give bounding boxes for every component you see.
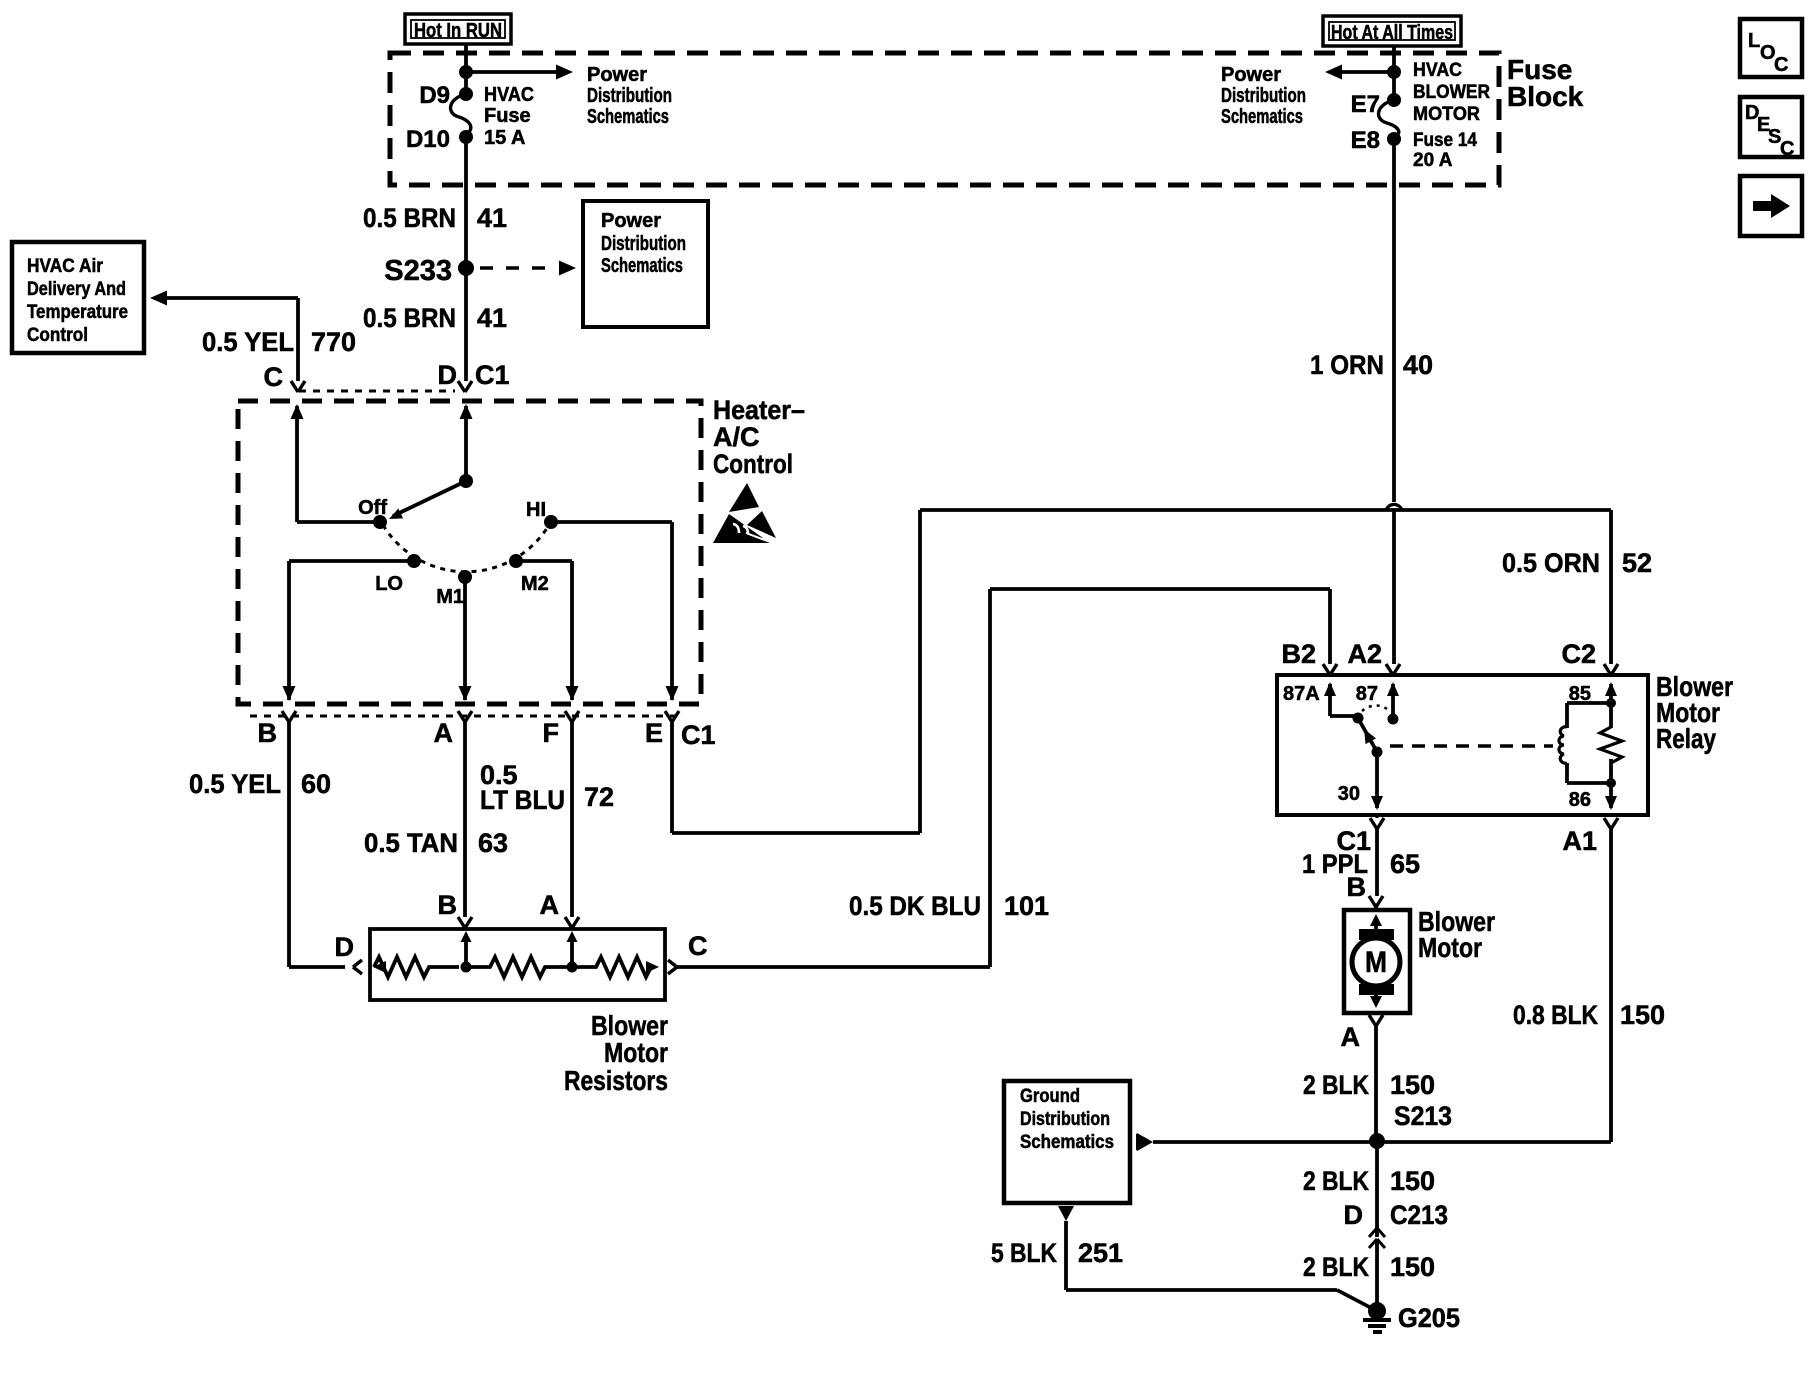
- svg-text:Block: Block: [1507, 81, 1584, 112]
- svg-text:770: 770: [311, 327, 356, 357]
- svg-text:Motor: Motor: [604, 1037, 668, 1068]
- svg-text:0.5 ORN: 0.5 ORN: [1502, 548, 1600, 578]
- svg-text:41: 41: [477, 303, 507, 333]
- svg-text:0.5 TAN: 0.5 TAN: [364, 828, 458, 858]
- svg-text:D10: D10: [406, 126, 450, 153]
- svg-text:A: A: [540, 890, 560, 920]
- svg-text:A1: A1: [1562, 826, 1597, 856]
- svg-text:Schematics: Schematics: [601, 255, 683, 277]
- svg-text:87A: 87A: [1283, 683, 1320, 705]
- svg-text:D: D: [438, 360, 458, 390]
- svg-text:150: 150: [1390, 1252, 1435, 1282]
- svg-text:150: 150: [1390, 1070, 1435, 1100]
- svg-text:Power: Power: [601, 210, 661, 232]
- svg-text:2 BLK: 2 BLK: [1303, 1070, 1369, 1100]
- svg-text:Relay: Relay: [1656, 723, 1716, 754]
- svg-text:E7: E7: [1351, 91, 1380, 118]
- svg-text:C: C: [1774, 54, 1788, 76]
- svg-text:Schematics: Schematics: [587, 106, 669, 128]
- svg-text:150: 150: [1390, 1166, 1435, 1196]
- svg-text:0.5 YEL: 0.5 YEL: [189, 769, 281, 799]
- svg-text:60: 60: [301, 769, 331, 799]
- svg-text:Motor: Motor: [1418, 932, 1482, 963]
- svg-text:D9: D9: [419, 82, 450, 109]
- svg-text:87: 87: [1356, 683, 1378, 705]
- svg-text:15 A: 15 A: [484, 127, 526, 149]
- svg-text:Schematics: Schematics: [1020, 1132, 1114, 1153]
- svg-text:30: 30: [1338, 783, 1360, 805]
- svg-text:Power: Power: [587, 64, 647, 86]
- svg-text:BLOWER: BLOWER: [1413, 82, 1490, 103]
- svg-text:Temperature: Temperature: [27, 302, 128, 323]
- svg-text:Control: Control: [27, 325, 88, 346]
- svg-text:0.8 BLK: 0.8 BLK: [1513, 1000, 1598, 1030]
- svg-text:0.5 BRN: 0.5 BRN: [363, 303, 456, 333]
- svg-text:Power: Power: [1221, 64, 1281, 86]
- svg-text:Distribution: Distribution: [1020, 1109, 1110, 1130]
- svg-text:5 BLK: 5 BLK: [991, 1238, 1057, 1268]
- svg-text:C: C: [1780, 138, 1794, 160]
- svg-text:M1: M1: [436, 586, 464, 608]
- svg-text:Distribution: Distribution: [587, 85, 672, 107]
- svg-text:LT BLU: LT BLU: [480, 785, 565, 815]
- svg-text:2 BLK: 2 BLK: [1303, 1166, 1369, 1196]
- svg-text:Delivery And: Delivery And: [27, 279, 126, 300]
- svg-text:A2: A2: [1347, 639, 1382, 669]
- svg-text:150: 150: [1620, 1000, 1665, 1030]
- svg-text:C1: C1: [475, 360, 510, 390]
- svg-text:F: F: [543, 718, 560, 748]
- svg-text:C2: C2: [1561, 639, 1596, 669]
- svg-text:D: D: [335, 932, 355, 962]
- svg-text:Distribution: Distribution: [1221, 85, 1306, 107]
- svg-text:Resistors: Resistors: [564, 1065, 668, 1096]
- svg-text:B2: B2: [1281, 639, 1316, 669]
- svg-text:HVAC Air: HVAC Air: [27, 256, 104, 277]
- svg-text:HI: HI: [526, 499, 546, 521]
- svg-text:G205: G205: [1398, 1303, 1460, 1333]
- svg-text:HVAC: HVAC: [484, 84, 534, 106]
- svg-text:M: M: [1365, 946, 1387, 979]
- svg-text:20 A: 20 A: [1413, 150, 1453, 171]
- svg-text:M2: M2: [521, 573, 549, 595]
- svg-text:0.5 DK BLU: 0.5 DK BLU: [849, 891, 981, 921]
- svg-text:S233: S233: [384, 255, 452, 287]
- svg-text:251: 251: [1078, 1238, 1123, 1268]
- svg-text:L: L: [1748, 30, 1760, 52]
- svg-text:E8: E8: [1351, 127, 1380, 154]
- svg-text:Fuse: Fuse: [484, 105, 531, 127]
- svg-text:A: A: [434, 718, 454, 748]
- svg-text:0.5 BRN: 0.5 BRN: [363, 203, 456, 233]
- svg-text:LO: LO: [375, 573, 403, 595]
- svg-text:Distribution: Distribution: [601, 233, 686, 255]
- svg-text:101: 101: [1004, 891, 1049, 921]
- svg-text:MOTOR: MOTOR: [1413, 104, 1480, 125]
- svg-text:Off: Off: [358, 497, 387, 519]
- svg-text:41: 41: [477, 203, 507, 233]
- svg-text:S213: S213: [1394, 1101, 1452, 1131]
- svg-text:86: 86: [1569, 789, 1591, 811]
- svg-text:2 BLK: 2 BLK: [1303, 1252, 1369, 1282]
- svg-text:B: B: [1347, 872, 1367, 902]
- svg-text:A/C: A/C: [713, 422, 760, 452]
- svg-text:72: 72: [584, 782, 614, 812]
- svg-text:C: C: [688, 931, 708, 961]
- svg-text:Schematics: Schematics: [1221, 106, 1303, 128]
- svg-text:Fuse 14: Fuse 14: [1413, 130, 1477, 151]
- svg-text:A: A: [1341, 1022, 1361, 1052]
- svg-text:HVAC: HVAC: [1413, 60, 1462, 81]
- svg-text:Control: Control: [713, 449, 793, 479]
- svg-text:52: 52: [1622, 548, 1652, 578]
- svg-text:Heater–: Heater–: [713, 395, 805, 425]
- svg-text:B: B: [438, 890, 458, 920]
- svg-text:63: 63: [478, 828, 508, 858]
- svg-text:65: 65: [1390, 849, 1420, 879]
- svg-text:B: B: [258, 718, 278, 748]
- svg-text:C1: C1: [681, 720, 716, 750]
- svg-text:Hot In RUN: Hot In RUN: [414, 20, 502, 42]
- svg-text:40: 40: [1403, 350, 1433, 380]
- svg-text:C: C: [264, 362, 284, 392]
- svg-text:Ground: Ground: [1020, 1086, 1080, 1107]
- svg-text:1 ORN: 1 ORN: [1310, 350, 1384, 380]
- svg-text:Hot At All Times: Hot At All Times: [1331, 22, 1453, 44]
- svg-text:C213: C213: [1390, 1200, 1448, 1230]
- svg-text:0.5 YEL: 0.5 YEL: [202, 327, 294, 357]
- svg-text:E: E: [645, 718, 663, 748]
- svg-text:D: D: [1344, 1200, 1364, 1230]
